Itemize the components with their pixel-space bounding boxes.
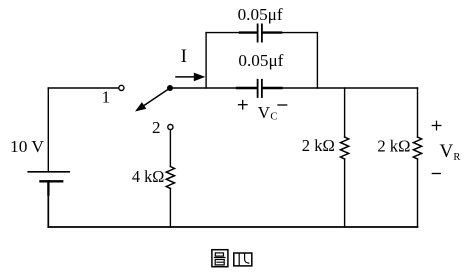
label + (Vc polarity) <box>239 104 248 106</box>
wire: 4k branch below terminal 2 <box>169 130 171 167</box>
battery V1 10V: negative short plate <box>41 180 63 182</box>
switch blade (arm thrown toward position 2) <box>144 88 171 106</box>
svg-text:2 kΩ: 2 kΩ <box>302 136 335 155</box>
svg-text:0.05μf: 0.05μf <box>238 51 283 70</box>
svg-text:4 kΩ: 4 kΩ <box>132 167 165 186</box>
wire: thicker stub just below battery - plate <box>47 181 49 194</box>
current arrow I head <box>194 73 206 82</box>
resistor R1 4kOhm zigzag <box>166 167 174 189</box>
wire: main horizontal rail y=88 left part (pivot to C2 left plate) <box>170 87 257 89</box>
label - (Vc polarity) <box>278 104 287 106</box>
switch terminal 2 contact (open circle) <box>168 124 173 129</box>
svg-text:10 V: 10 V <box>10 137 45 156</box>
wire: left vertical from battery - plate down to bottom rail <box>47 181 49 227</box>
caption glyph Tu (figure) <box>212 250 228 267</box>
svg-text:V: V <box>440 141 454 162</box>
current arrow I shaft <box>176 76 195 78</box>
svg-text:1: 1 <box>102 87 111 106</box>
capacitor C2 right lead (thick) <box>263 87 282 89</box>
capacitor C2 0.05uf plates <box>257 80 259 97</box>
switch terminal 1 contact (open circle) <box>119 85 124 90</box>
resistor R2 2kOhm zigzag <box>341 137 349 159</box>
svg-text:2 kΩ: 2 kΩ <box>377 136 410 155</box>
switch pivot junction dot <box>167 85 173 91</box>
wire: main horizontal rail y=88 right part <box>263 87 418 89</box>
svg-text:2: 2 <box>152 118 161 137</box>
wire: first 2k branch upper <box>344 88 346 137</box>
wire: second 2k branch upper <box>417 88 419 137</box>
svg-text:R: R <box>453 152 460 163</box>
svg-text:I: I <box>181 46 187 67</box>
caption glyph Si (four) <box>234 253 252 266</box>
svg-text:C: C <box>270 111 277 122</box>
svg-text:V: V <box>258 103 271 122</box>
label - (VR polarity) <box>432 173 440 175</box>
wire: first 2k branch lower <box>344 159 346 227</box>
capacitor C1 right lead (thick) <box>263 31 281 33</box>
battery V1 10V: positive long plate <box>28 171 69 173</box>
wire: bottom rail <box>48 226 417 228</box>
switch blade arrowhead <box>135 102 146 111</box>
svg-text:0.05μf: 0.05μf <box>238 5 283 24</box>
capacitor C1 left lead (thick) <box>240 31 257 33</box>
wire: 4k branch to bottom rail <box>169 189 171 228</box>
wire: left vertical from node at y=88 down to battery + plate <box>47 88 49 172</box>
capacitor C2 left lead (thick) <box>237 87 257 89</box>
wire: top-left horizontal to switch terminal 1 <box>48 87 118 89</box>
wire: second 2k branch lower <box>417 159 419 227</box>
wire: capacitor loop left vertical <box>205 33 207 88</box>
wire: capacitor loop top rail right part <box>263 32 318 34</box>
wire: capacitor loop top rail left part <box>206 32 257 34</box>
resistor R3 2kOhm zigzag <box>413 137 421 159</box>
capacitor C1 0.05uf plates <box>257 24 259 41</box>
label + (VR polarity) <box>432 125 441 127</box>
wire: capacitor loop right vertical <box>316 33 318 88</box>
